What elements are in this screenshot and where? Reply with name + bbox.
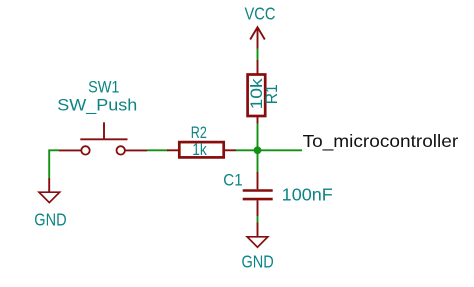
ground GND2 (bottom) [242, 223, 274, 272]
wire VCC to R1 [257, 49, 259, 61]
R1 body [248, 75, 266, 117]
wire R2 to junction [236, 149, 258, 151]
GND1 triangle [39, 192, 60, 202]
power symbol VCC (arrow) [250, 27, 265, 48]
SW1 pin 2 (right) [125, 149, 147, 151]
svg-text:SW1: SW1 [88, 78, 119, 97]
wire junction to C1 [257, 150, 259, 172]
SW1 contact circle left [81, 146, 89, 154]
C1 plate top [243, 189, 273, 192]
capacitor C1 [223, 171, 333, 216]
switch SW1 (SW_Push) [57, 78, 147, 155]
svg-text:C1: C1 [223, 171, 242, 190]
wire C1 to GND2 [257, 216, 259, 223]
svg-text:VCC: VCC [245, 3, 276, 23]
resistor R1 [248, 60, 282, 124]
C1 pin 2 (bottom) [257, 200, 259, 216]
C1 pin 1 (top) [257, 172, 259, 189]
SW1 contact circle right [117, 146, 125, 154]
svg-text:To_microcontroller: To_microcontroller [303, 131, 459, 152]
SW1 actuator stub [103, 122, 105, 139]
R2 pin 1 (left) [167, 149, 179, 151]
svg-text:R1: R1 [263, 84, 281, 104]
R2 pin 2 (right) [224, 149, 236, 151]
svg-text:100nF: 100nF [282, 185, 333, 205]
R1 pin 2 (bottom) [257, 116, 259, 124]
net VCC label text [245, 3, 276, 23]
SW1 actuator bar [80, 138, 127, 140]
ground GND1 (left) [34, 178, 66, 229]
SW1 pin 1 (left) [59, 149, 81, 151]
GND2 triangle [247, 237, 268, 247]
junction node [254, 146, 262, 154]
wire R1 to junction [257, 124, 259, 151]
R2 body [179, 142, 223, 157]
resistor R2 [167, 123, 236, 159]
svg-text:SW_Push: SW_Push [57, 95, 137, 114]
svg-text:1k: 1k [192, 140, 207, 159]
wire junction to label [258, 149, 303, 151]
GND2 pin [257, 223, 259, 237]
svg-text:GND: GND [242, 252, 274, 272]
wire SW1 to left GND (corner) [49, 150, 59, 178]
svg-text:GND: GND [34, 209, 66, 229]
R1 pin 1 (top) [257, 60, 259, 74]
GND1 pin [48, 178, 50, 192]
C1 plate bottom [243, 198, 273, 201]
wire SW1 to R2 [147, 149, 168, 151]
